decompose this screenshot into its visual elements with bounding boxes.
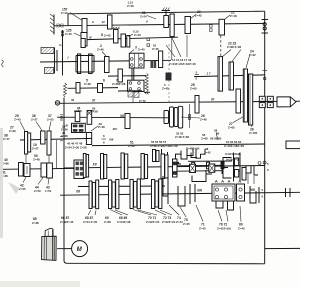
worm gear box 2	[237, 181, 245, 202]
gear on XI x236	[236, 89, 241, 113]
link vertical A-B c	[56, 140, 58, 169]
svg-text:Z=45: Z=45	[152, 47, 159, 51]
hanging gear pair H4	[161, 154, 168, 179]
label 0,15 Z=40	[129, 30, 142, 38]
gear on IX end	[86, 133, 91, 145]
svg-text:Z=46: Z=46	[127, 4, 134, 8]
gear left of cone	[118, 69, 122, 82]
svg-text:Z=45: Z=45	[199, 227, 206, 231]
svg-text:Z=24: Z=24	[140, 14, 147, 18]
shaft XI lower long	[64, 166, 265, 169]
svg-text:Z=88 Z=36: Z=88 Z=36	[227, 45, 242, 49]
worm gear box 1	[212, 181, 235, 202]
gear x47 tall	[47, 131, 51, 155]
bottom label row 75 77	[180, 207, 190, 226]
svg-text:8: 8	[101, 33, 103, 37]
label 24 Z=22	[246, 50, 256, 69]
svg-text:Z=38: Z=38	[32, 221, 39, 225]
fraction marks x263	[262, 188, 264, 199]
svg-text:Z=52: Z=52	[47, 117, 54, 121]
gear pair x24	[25, 132, 31, 155]
label 56 Z=60	[201, 133, 208, 140]
gear B1	[24, 164, 30, 177]
long shaft XII/XIII	[60, 192, 300, 195]
motor M	[72, 241, 88, 257]
bottom label row 66 87	[60, 216, 74, 224]
gear 24b	[249, 74, 253, 125]
vertical rod with chain circles	[61, 30, 63, 76]
svg-text:XIII: XIII	[196, 189, 202, 193]
label 3 Z=40	[130, 46, 145, 53]
svg-text:Z=48Z=35: Z=48Z=35	[186, 147, 200, 151]
journal on right vertical	[262, 71, 267, 80]
hanging gear pair H2	[121, 153, 128, 179]
bracket above worm box	[206, 165, 240, 178]
gear on shaft IV	[76, 83, 80, 94]
hanging gear pair H3	[141, 154, 148, 180]
row 45 46 47 48	[65, 142, 87, 150]
scan mark left	[2, 60, 4, 67]
svg-text:0=26;2=Ц: 0=26;2=Ц	[226, 158, 240, 162]
svg-text:Z=50: Z=50	[34, 189, 41, 193]
shaft IV short	[68, 87, 119, 90]
svg-text:Z=47: Z=47	[3, 137, 10, 141]
gear on VIII b	[87, 111, 92, 125]
bearing squares shaft II	[210, 25, 213, 32]
label 58	[214, 129, 218, 141]
journal mark IX left	[60, 137, 63, 141]
bottom label row 70 71	[133, 210, 160, 225]
svg-text:Z=48: Z=48	[98, 125, 105, 129]
svg-text:58 59 60: 58 59 60	[210, 137, 222, 141]
gear cluster C3	[130, 179, 140, 209]
svg-text:Z=43: Z=43	[14, 117, 21, 121]
shaft VIII	[57, 116, 168, 119]
label 21 Z=18	[225, 11, 238, 20]
gear cluster C1	[89, 180, 99, 209]
gear 2	[105, 57, 110, 73]
bearing squares shaft III	[147, 38, 150, 46]
svg-text:Z=60: Z=60	[201, 136, 208, 140]
bracket right of worm box	[250, 186, 259, 203]
pencil smudge	[8, 182, 20, 194]
vertical link x171.8	[171, 37, 173, 61]
bottom label row 80	[238, 206, 245, 231]
bottom label row 69b	[104, 216, 111, 224]
svg-text:30: 30	[216, 132, 220, 136]
svg-text:Z=24Z=24Z=42Z=40: Z=24Z=24Z=42Z=40	[169, 62, 196, 66]
belt to motor	[57, 248, 71, 250]
svg-text:0,1: 0,1	[59, 43, 63, 47]
gear on shafts II-III tall	[108, 15, 113, 29]
svg-text:Z=42: Z=42	[195, 13, 202, 17]
gear B3	[47, 163, 53, 178]
bottom label row 68 69	[110, 210, 131, 225]
rack box right	[286, 141, 301, 149]
fraction right of vertical	[267, 162, 269, 172]
long vertical left	[64, 98, 67, 264]
bottom label row 68 87b	[83, 210, 98, 224]
reverser pulleys right	[258, 161, 266, 164]
svg-text:3 Г: 3 Г	[207, 72, 211, 76]
small gear pair below main	[153, 150, 160, 162]
hooks under worm box	[216, 201, 234, 210]
label 51 Z=28	[128, 141, 135, 148]
gear on VIII a	[75, 111, 80, 121]
svg-text:Z=48: Z=48	[200, 117, 207, 121]
label 157 Z=40	[61, 8, 82, 21]
leadscrew bullet end	[277, 97, 296, 107]
main feed shaft	[92, 144, 265, 146]
svg-text:XIII: XIII	[108, 138, 114, 142]
annotation right	[225, 152, 241, 162]
gear x40	[41, 131, 45, 144]
double hook	[187, 149, 205, 159]
gear 21	[219, 19, 225, 35]
hanging gear pair H0	[83, 154, 88, 178]
gears 25-26 cluster below XI	[164, 106, 183, 128]
hooks above sleeve	[181, 153, 197, 160]
svg-text:Z=42: Z=42	[238, 227, 245, 231]
gear tall x170	[170, 14, 174, 37]
right lower line	[265, 247, 300, 249]
svg-text:Z=27: Z=27	[32, 146, 39, 150]
label 39 Z=48	[91, 122, 105, 131]
gear x242	[242, 168, 246, 181]
svg-text:6: 6	[103, 79, 105, 83]
svg-text:Z=28: Z=28	[61, 134, 68, 138]
clutch box with dark squares	[72, 123, 86, 132]
gamma bracket with pivot dot	[176, 151, 182, 165]
gear cluster C2	[109, 180, 119, 209]
svg-text:Z=48: Z=48	[84, 82, 91, 86]
label 8 Z=42	[101, 33, 111, 37]
S-bracket reverser	[246, 166, 258, 175]
wire vertical from line A to shaft II	[67, 14, 69, 26]
svg-text:Z=28Z=28: Z=28Z=28	[112, 82, 126, 86]
hanging gear pair H1	[101, 154, 107, 180]
black block gear	[166, 73, 172, 81]
gear 23	[229, 62, 234, 90]
svg-text:XI: XI	[210, 98, 214, 102]
wire cone box to XI	[132, 98, 134, 103]
clutch sleeve on XI	[177, 163, 222, 175]
link gear21 to gear22	[220, 36, 222, 57]
labels 28 29	[74, 106, 98, 114]
shaft IVa segment	[108, 75, 146, 78]
svg-text:3: 3	[135, 46, 137, 50]
shaft IVb segment	[118, 90, 142, 92]
svg-text:Z=48 Z=28Z=28Z=48: Z=48 Z=28Z=28Z=48	[150, 144, 178, 148]
svg-text:Z=40: Z=40	[138, 48, 145, 52]
gear Z=40 (125) idler	[81, 33, 87, 47]
svg-text:Z=48: Z=48	[33, 157, 40, 161]
svg-text:1=51: 1=51	[45, 189, 52, 193]
bottom label row 76 72	[217, 210, 231, 231]
shaft II	[54, 23, 265, 25]
labels 5 6 7	[84, 79, 126, 86]
svg-text:Z=44: Z=44	[176, 220, 183, 224]
cone gear box upper	[129, 53, 144, 68]
gear 20	[185, 17, 191, 34]
cone pulley	[42, 228, 57, 260]
svg-text:XII: XII	[119, 114, 124, 118]
wall anchor hatched mid-top	[162, 8, 171, 16]
svg-text:0=6#10XЦБ: 0=6#10XЦБ	[225, 152, 241, 156]
svg-text:Z=42: Z=42	[204, 150, 211, 154]
gear on XI x195	[195, 96, 199, 114]
svg-text:Z=40Z=38Z=28: Z=40Z=38Z=28	[224, 144, 244, 148]
svg-text:Z=04 Z=45: Z=04 Z=45	[83, 220, 98, 224]
enclosure bottom	[67, 262, 265, 265]
labels 53-57 row	[150, 140, 178, 148]
svg-text:Z=72: Z=72	[139, 99, 146, 103]
gear on shaft III	[121, 34, 126, 47]
svg-text:Z=18: Z=18	[230, 14, 237, 18]
label 31 Z=24	[140, 11, 156, 19]
top edge label smudge	[127, 1, 134, 9]
link vertical A-B a	[25, 154, 27, 164]
svg-text:II: II	[92, 20, 94, 24]
svg-text:Z=40: Z=40	[65, 32, 72, 36]
verticals S-bracket to worm box	[248, 174, 254, 184]
journal fraction at main start	[102, 134, 107, 145]
label 5 Z=45	[162, 83, 169, 91]
svg-text:Z=45: Z=45	[183, 222, 190, 226]
scan noise left edge	[0, 128, 3, 238]
svg-text:Z=38: Z=38	[104, 220, 111, 224]
svg-text:Z=86: Z=86	[2, 161, 9, 165]
svg-text:Z=39: Z=39	[9, 129, 16, 133]
svg-text:I: I	[68, 56, 69, 60]
gear small on shaft III	[127, 36, 130, 48]
clutch block on lower XI	[74, 160, 84, 179]
svg-text:Z=65: Z=65	[228, 125, 235, 129]
svg-text:Z=48 Z=60: Z=48 Z=60	[175, 135, 190, 139]
svg-text:Z=40: Z=40	[134, 33, 141, 37]
svg-text:30: 30	[71, 98, 75, 102]
wire vertical right main	[264, 11, 266, 264]
U bracket below XIII	[192, 176, 206, 182]
spring symbol left	[64, 83, 67, 97]
upper short line bottom block	[78, 185, 165, 188]
svg-text:Z=42Z=(9): Z=42Z=(9)	[217, 227, 231, 231]
label 20 Z=42	[191, 10, 203, 19]
label 18 Z=26	[61, 125, 68, 132]
svg-text:Z=28: Z=28	[128, 144, 135, 148]
left gearbox shaft B	[2, 167, 74, 170]
shaft III	[87, 37, 179, 39]
label 25 Z=60	[190, 83, 197, 90]
label 27 Z=65	[228, 117, 243, 129]
friction clutch hatched left	[41, 48, 57, 74]
svg-text:XII: XII	[92, 163, 97, 167]
svg-text:Z=100: Z=100	[249, 131, 258, 135]
gear x125 on VIII	[125, 114, 130, 129]
svg-text:Z=45: Z=45	[162, 87, 169, 91]
svg-text:Z=42: Z=42	[104, 33, 111, 37]
label 26 Z=48	[181, 114, 207, 121]
label 125 Z=40	[65, 29, 81, 37]
gear Z=40 (157) on shaft II	[82, 19, 87, 33]
journal marks VIII left	[60, 115, 63, 120]
label 35 Z=28	[61, 131, 68, 138]
dark gear pair under cone	[128, 92, 139, 98]
svg-text:Z=40: Z=40	[61, 11, 68, 15]
bracket gears mid-right	[163, 176, 168, 204]
bottom label row 74	[169, 205, 183, 224]
tumbler rod with chain circles	[188, 104, 190, 128]
gear 24 tall	[243, 69, 247, 122]
labels 14..18 row	[166, 35, 196, 66]
svg-text:Z=04Z=38: Z=04Z=38	[117, 220, 131, 224]
labels 61-64 row	[224, 140, 244, 148]
svg-text:Z=02Z=24: Z=02Z=24	[146, 220, 160, 224]
sliding double-gear block on shaft I	[76, 54, 94, 74]
scan noise bottom	[0, 281, 80, 287]
gear cluster C4	[152, 179, 162, 209]
svg-text:Z=55: Z=55	[19, 187, 26, 191]
rail with legs	[188, 161, 232, 169]
gear on shaft IV b	[98, 84, 103, 93]
label 58 59 60	[210, 137, 222, 141]
svg-text:Z=46: Z=46	[97, 47, 104, 51]
long shaft XI with end journal	[55, 101, 59, 105]
gear x158	[159, 51, 163, 68]
labels 22 23	[222, 42, 242, 62]
gear below mid hatch	[164, 16, 169, 28]
belt pulley symbol on right vertical	[262, 20, 269, 34]
small dark gears shaft I end	[151, 61, 157, 69]
bottom label row 85	[32, 217, 39, 225]
labels 42 44 43	[19, 177, 26, 191]
overload coupling squares	[259, 96, 273, 107]
svg-text:(Z=28: (Z=28	[74, 109, 82, 113]
cone gear box lower	[128, 68, 144, 92]
tall bracket x233	[234, 153, 241, 182]
labels 32 33	[175, 132, 190, 139]
svg-text:Z=27: Z=27	[31, 117, 38, 121]
gear 22 tall	[218, 57, 223, 92]
bearing cross on shaft II left	[57, 24, 63, 28]
gear B2	[41, 163, 47, 177]
journal marks shaft V left	[195, 71, 199, 81]
label 61 Z=45	[152, 44, 159, 51]
bracket hooks below main	[162, 149, 168, 159]
svg-text:12: 12	[102, 20, 106, 24]
left gearbox shaft A	[20, 138, 92, 140]
bottom label row 72 73	[155, 210, 176, 224]
gear B0	[19, 163, 24, 177]
label 2 Z=46	[97, 44, 106, 56]
label 26 Z=100	[249, 125, 258, 135]
leadscrew coupling ticks	[286, 188, 291, 197]
svg-text:Z=49Z=45: Z=49Z=45	[60, 220, 74, 224]
dash line of shift	[168, 44, 170, 103]
shift-fork bar with dark pads	[173, 159, 178, 177]
link vertical A-B b	[48, 155, 50, 163]
gear between III and block	[81, 39, 85, 48]
wall anchor hatched top-left	[50, 14, 54, 35]
svg-text:XI: XI	[91, 99, 95, 103]
gear w hatch on shaft III	[113, 27, 120, 43]
svg-text:Z=02Z=24: Z=02Z=24	[162, 220, 176, 224]
shaft V right upper	[194, 75, 265, 77]
spring 2	[145, 74, 148, 92]
C-bracket right of sleeve	[223, 158, 232, 179]
svg-text:II: II	[146, 20, 148, 24]
ground under spring2	[144, 92, 150, 94]
svg-text:Z=24 Z=30 Z=28: Z=24 Z=30 Z=28	[65, 145, 87, 149]
labels left column top	[14, 114, 25, 131]
wire top line A	[68, 11, 265, 14]
shaft I	[40, 60, 171, 62]
bottom label row 71r	[196, 205, 206, 231]
svg-text:III: III	[89, 36, 92, 40]
label 38 Z=42	[204, 147, 211, 154]
svg-text:Z=60: Z=60	[190, 86, 197, 90]
svg-text:XII: XII	[75, 190, 80, 194]
